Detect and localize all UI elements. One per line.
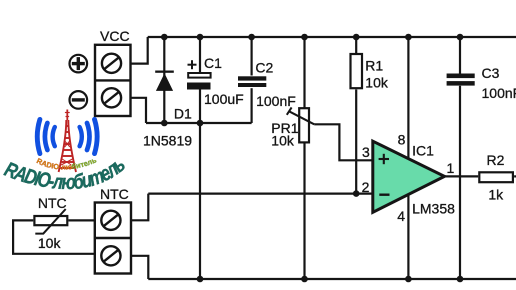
wire R1 branch: [355, 37, 357, 194]
wire minus terminal to gnd bus: [131, 98, 147, 123]
svg-text:3: 3: [362, 144, 370, 160]
capacitor C3: [447, 74, 475, 86]
svg-text:IC1: IC1: [412, 143, 434, 159]
wire C2 branch: [251, 37, 253, 123]
svg-text:C2: C2: [255, 60, 273, 76]
svg-text:VCC: VCC: [100, 28, 130, 44]
svg-text:R2: R2: [487, 152, 505, 168]
svg-text:10k: 10k: [38, 235, 62, 251]
node VCC rail / C3 junction: [457, 34, 464, 41]
logo radio tower antenna waves: [37, 119, 97, 153]
svg-text:1k: 1k: [488, 186, 504, 202]
svg-text:100uF: 100uF: [204, 91, 244, 107]
thermistor NTC: [34, 209, 67, 234]
wire NTC block bottom cell to gnd rail: [131, 256, 148, 279]
svg-text:C3: C3: [482, 65, 500, 81]
wire C1 branch: [199, 37, 201, 279]
wire gnd bus y=123: [146, 122, 252, 124]
terminal block J1 (VCC): [95, 45, 131, 116]
node minus bus / C1 junction: [197, 120, 204, 127]
svg-text:100nF: 100nF: [482, 85, 516, 101]
svg-text:1N5819: 1N5819: [143, 133, 192, 149]
wire VCC top rail: [148, 36, 516, 38]
minus polarity symbol: [70, 91, 88, 109]
node gnd rail / PR1 junction: [301, 276, 308, 283]
wire NTC block top cell to inverting node: [131, 194, 148, 221]
wire PR1 branch: [303, 37, 305, 279]
svg-text:10k: 10k: [365, 75, 389, 91]
svg-text:10k: 10k: [271, 133, 295, 149]
wire IC1 pin4 to gnd: [407, 194, 409, 279]
node inverting input junction: [353, 190, 360, 197]
op-amp IC1: [373, 141, 445, 212]
wire NTC right lead: [68, 219, 94, 221]
wire PR1 wiper to pin3: [314, 124, 373, 160]
svg-text:NTC: NTC: [38, 195, 67, 211]
wire NTC left lead loop: [13, 220, 95, 253]
node VCC rail / C2 junction: [248, 34, 255, 41]
logo radio tower mast: [59, 110, 76, 173]
trimmer PR1: [287, 107, 314, 142]
svg-text:2: 2: [362, 179, 370, 195]
wire IC1 pin8 to VCC: [407, 37, 409, 159]
node gnd rail / C3 junction: [457, 276, 464, 283]
wire IC1 output to R2: [445, 175, 516, 177]
node VCC rail / D1 junction: [161, 34, 168, 41]
node VCC rail / C1 junction: [197, 34, 204, 41]
node minus bus / D1 junction: [161, 120, 168, 127]
resistor R2: [479, 172, 513, 182]
wire C3 branch: [459, 37, 461, 279]
wire plus terminal to rail: [131, 37, 148, 64]
wire bottom gnd rail: [148, 278, 516, 280]
node gnd rail / pin4 junction: [405, 276, 412, 283]
diode D1: [155, 71, 174, 91]
wire inverting input node: [148, 193, 372, 195]
svg-text:8: 8: [398, 132, 406, 148]
svg-text:100nF: 100nF: [256, 93, 296, 109]
svg-text:R1: R1: [365, 58, 383, 74]
node VCC rail / PR1 junction: [301, 34, 308, 41]
svg-text:D1: D1: [174, 106, 192, 122]
node gnd rail / C1 junction: [197, 276, 204, 283]
plus polarity symbol: [70, 55, 88, 73]
node VCC rail / R1 junction: [353, 34, 360, 41]
svg-text:1: 1: [447, 160, 455, 176]
wire diode branch: [163, 37, 165, 123]
svg-text:NTC: NTC: [100, 186, 129, 202]
resistor R1: [351, 54, 363, 88]
svg-text:LM358: LM358: [412, 201, 455, 217]
capacitor C1: [187, 60, 211, 89]
capacitor C2: [238, 76, 266, 87]
svg-text:4: 4: [397, 208, 405, 224]
terminal block J2 (NTC): [95, 203, 131, 274]
svg-text:C1: C1: [204, 55, 222, 71]
node VCC rail / pin8 junction: [405, 34, 412, 41]
